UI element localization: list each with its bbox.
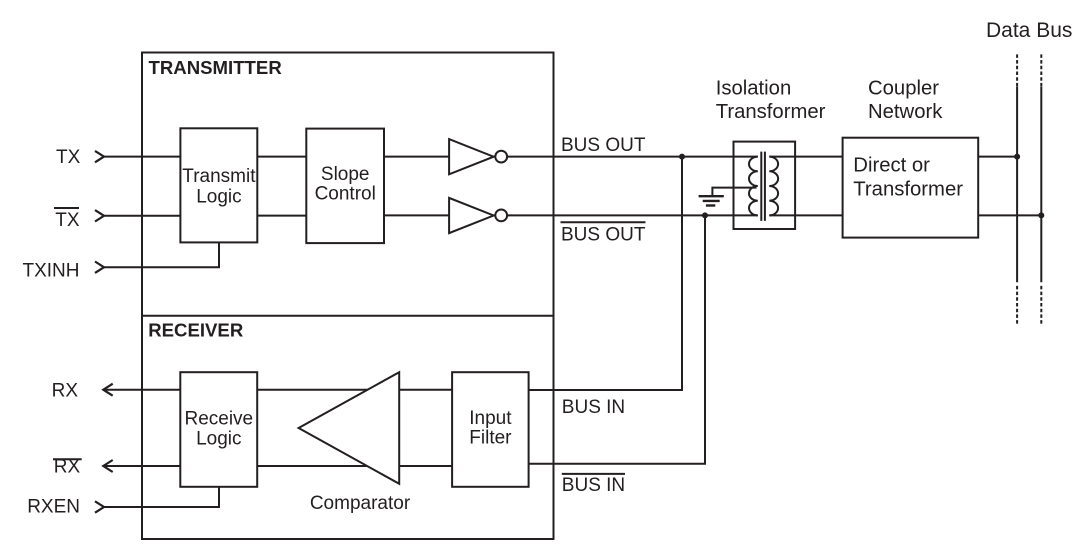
svg-text:RX: RX [52,380,79,401]
svg-text:Direct or: Direct or [853,155,930,177]
svg-text:Transformer: Transformer [716,101,826,123]
svg-text:TRANSMITTER: TRANSMITTER [149,57,283,78]
svg-text:Network: Network [868,101,943,123]
svg-text:Transmit: Transmit [182,166,256,187]
svg-text:Input: Input [469,408,512,429]
svg-text:Logic: Logic [196,428,241,449]
svg-text:Filter: Filter [469,428,512,449]
svg-text:Comparator: Comparator [310,493,411,514]
svg-text:Logic: Logic [196,186,241,207]
svg-text:TX: TX [56,147,81,168]
svg-text:Control: Control [315,184,376,205]
svg-text:Transformer: Transformer [853,178,963,200]
svg-text:BUS OUT: BUS OUT [561,135,646,156]
svg-text:TX: TX [55,210,80,231]
svg-text:TXINH: TXINH [23,261,80,282]
svg-text:BUS IN: BUS IN [562,475,625,496]
svg-text:Isolation: Isolation [716,78,792,100]
svg-text:RX: RX [54,456,81,477]
svg-text:BUS IN: BUS IN [562,397,625,418]
svg-text:Coupler: Coupler [868,78,939,100]
svg-text:Data Bus: Data Bus [986,19,1072,42]
svg-text:Slope: Slope [321,164,370,185]
svg-text:RECEIVER: RECEIVER [148,319,244,340]
svg-text:Receive: Receive [184,409,253,430]
svg-text:RXEN: RXEN [27,497,80,518]
svg-text:BUS OUT: BUS OUT [561,225,646,246]
